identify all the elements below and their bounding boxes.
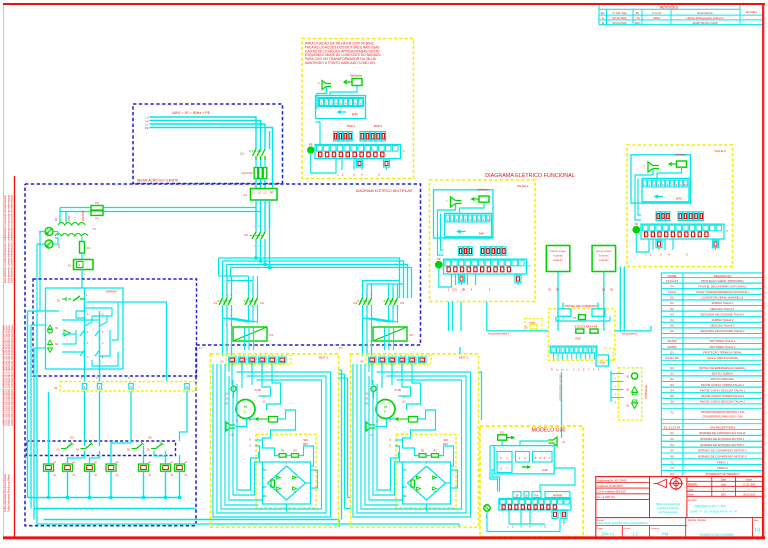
- control bus wire left: [487, 331, 549, 336]
- svg-text:S0: S0: [670, 366, 674, 370]
- antenna down button S2: [626, 400, 638, 408]
- svg-text:fax +q 45/8 7bd: fax +q 45/8 7bd: [597, 496, 615, 499]
- svg-text:MANTENDO O PONTO MARCADO COMO: MANTENDO O PONTO MARCADO COMO ON.: [305, 61, 376, 65]
- auxiliary contact box (blue dashed): [27, 441, 176, 456]
- antenna up button S1: [626, 387, 638, 395]
- svg-text:ARG: ARG: [634, 21, 640, 25]
- panel pin numbers: [551, 369, 600, 372]
- transformer T1: [55, 210, 96, 248]
- TALHA 1 internal strip wires: [439, 268, 518, 287]
- svg-text:08.03.2016: 08.03.2016: [743, 493, 756, 496]
- svg-text:L3: L3: [146, 115, 149, 119]
- svg-text:X1: X1: [54, 386, 58, 390]
- terminal strip X1 (supply entry): [244, 189, 277, 201]
- svg-text:Este desenho contem informacoe: Este desenho contem informacoes confiden…: [9, 194, 13, 283]
- svg-text:B: B: [526, 493, 528, 497]
- svg-text:440V = 3F = 60Hz + PE: 440V = 3F = 60Hz + PE: [172, 111, 211, 115]
- svg-text:BOTÃO DESCIDA: BOTÃO DESCIDA: [711, 376, 734, 381]
- svg-text:S1: S1: [670, 372, 674, 376]
- command panel box (yellow dashed): [549, 309, 615, 361]
- svg-text:FIM DE CURSO SUBIDA TALHA 1: FIM DE CURSO SUBIDA TALHA 1: [701, 383, 745, 387]
- svg-text:F6: F6: [95, 217, 99, 221]
- note box PE lamp: [308, 143, 314, 153]
- svg-text:F4: F4: [87, 246, 91, 250]
- svg-text:3~: 3~: [384, 410, 388, 414]
- svg-text:MOT 2: MOT 2: [459, 356, 468, 360]
- TALHA 2 pin numbers: [645, 253, 688, 257]
- sirene box (blue dashed): [33, 279, 197, 376]
- note box 220V conversion (yellow dashed): [302, 39, 414, 179]
- svg-text:Zeichng. Nummer: Zeichng. Nummer: [688, 519, 706, 522]
- svg-text:SIRENA: SIRENA: [105, 290, 116, 294]
- svg-text:S33: S33: [303, 438, 308, 442]
- svg-text:R: R: [551, 369, 553, 372]
- pendant box TALHA 2 (yellow dashed): [627, 145, 733, 267]
- svg-text:Gepr.: Gepr.: [688, 489, 694, 492]
- wires Q1 to X1: [256, 179, 265, 189]
- svg-text:ADAPTAÇÃO CA08: ADAPTAÇÃO CA08: [693, 20, 718, 25]
- svg-text:X1: X1: [670, 431, 674, 435]
- note box horn symbol: [318, 81, 331, 90]
- svg-text:via del painel 2: via del painel 2: [622, 334, 638, 336]
- brake Y2: [366, 422, 381, 437]
- panel connector blocks: [556, 309, 610, 321]
- svg-text:K3: K3: [70, 436, 74, 440]
- svg-text:K4: K4: [354, 301, 358, 305]
- G30 wires block to strip: [490, 440, 575, 491]
- svg-text:BORNES DE COMANDO DA TALHA: BORNES DE COMANDO DA TALHA: [700, 431, 746, 435]
- TALHA 2 lower cells: [656, 240, 719, 248]
- svg-text:SUBIDA 2: SUBIDA 2: [599, 259, 610, 262]
- svg-text:Talha Industrial Producao Bras: Talha Industrial Producao Brasil: [7, 474, 11, 512]
- TALHA 2 wires to strips: [635, 167, 682, 220]
- svg-text:Ed.: Ed.: [601, 11, 605, 15]
- svg-text:X2: X2: [670, 437, 674, 441]
- hoist motor box MOT 2 (yellow dashed): [351, 354, 479, 527]
- svg-text:K0: K0: [670, 296, 674, 300]
- svg-text:Hagenweg/Str. 800 23045: Hagenweg/Str. 800 23045: [597, 479, 627, 482]
- svg-text:S2: S2: [670, 377, 674, 381]
- wires X2 to motor: [232, 363, 262, 388]
- svg-text:DIAGRAMA ELÉTRICO MULTIFILAR: DIAGRAMA ELÉTRICO MULTIFILAR: [356, 188, 413, 193]
- G30 bottom wires: [487, 510, 564, 532]
- svg-text:K0: K0: [244, 233, 248, 237]
- panel fuse F3: [573, 315, 585, 320]
- border frame left red margin line: [14, 176, 16, 537]
- svg-text:BOTÃO SUBIDA: BOTÃO SUBIDA: [712, 371, 733, 376]
- svg-text:B40/T2: B40/T2: [374, 124, 383, 128]
- note box mid terminal cells group 1: [334, 132, 353, 142]
- sirene contact network wires: [62, 288, 167, 382]
- svg-text:BORNES DE ENTRADA MOTOR 2: BORNES DE ENTRADA MOTOR 2: [701, 443, 745, 447]
- svg-text:Format: Format: [597, 519, 604, 522]
- svg-text:.Tb: .Tb: [635, 16, 639, 20]
- svg-text:BORNES DE ENTRADA MOTOR 1: BORNES DE ENTRADA MOTOR 1: [701, 437, 745, 441]
- rectifier bridge MOT 1: [263, 462, 311, 508]
- TALHA 1 receiver enclosure: [434, 190, 494, 238]
- svg-text:Habilitador: Habilitador: [477, 189, 489, 192]
- svg-text:220V: 220V: [68, 215, 71, 221]
- contactor coil row K0-K6: [44, 461, 188, 477]
- svg-text:APRRR: APRRR: [553, 493, 563, 497]
- sirene exit pin numbers: [81, 377, 130, 380]
- svg-text:M1/M2: M1/M2: [667, 339, 677, 343]
- multifilar diagram boundary (blue dashed L-shape): [25, 184, 421, 526]
- svg-text:FUSÍV. TRANSFORMADOR (OPCIONAL: FUSÍV. TRANSFORMADOR (OPCIONAL): [696, 290, 748, 294]
- svg-text:DESNAME: EXTRUFVETLAN\0000012: DESNAME: EXTRUFVETLAN\00000126: [597, 521, 648, 525]
- note text paragraph: [305, 42, 381, 66]
- svg-text:B43: B43: [303, 442, 308, 446]
- rectifier box MOT 1 (yellow dashed): [250, 434, 317, 508]
- supply phase labels L3 L2 L1 PE: [145, 115, 149, 130]
- svg-text:K2: K2: [670, 307, 674, 311]
- title block file row: [596, 518, 761, 538]
- note box mid terminal cells group 2: [360, 132, 386, 142]
- note box receiver lamp E1: [344, 74, 362, 86]
- svg-text:NOTA: EM CASO DE DUVIDAS CONSU: NOTA: EM CASO DE DUVIDAS CONSULTE O MANU…: [10, 325, 14, 426]
- svg-text:X5: X5: [670, 455, 674, 459]
- svg-text:K1: K1: [214, 301, 218, 305]
- svg-text:1/1: 1/1: [754, 527, 761, 532]
- svg-text:REVISÕES: REVISÕES: [660, 4, 679, 9]
- svg-text:K5: K5: [148, 436, 152, 440]
- svg-text:PE: PE: [309, 143, 313, 147]
- TALHA 1 lower cells: [459, 275, 522, 283]
- svg-text:K6: K6: [410, 333, 414, 337]
- svg-text:Yr. Mo. Day: Yr. Mo. Day: [612, 11, 627, 15]
- antenna box (yellow dashed): [618, 368, 641, 420]
- svg-text:B40: B40: [676, 197, 682, 201]
- customer installation box (blue dashed): [133, 104, 283, 184]
- svg-text:V: V: [318, 81, 320, 85]
- svg-text:GND: GND: [575, 336, 581, 340]
- lamp H2 sirene: [48, 340, 59, 353]
- wire X1 tap down to sirene: [82, 270, 86, 289]
- svg-text:Varistor (RETIFICADOR): Varistor (RETIFICADOR): [707, 356, 738, 360]
- svg-text:Norm: Norm: [688, 493, 694, 496]
- svg-text:K6: K6: [670, 329, 674, 333]
- limit switch box SUBIDA 1: [546, 246, 570, 331]
- contactor K5: [384, 288, 405, 312]
- svg-text:Habilitador: Habilitador: [350, 74, 363, 78]
- legend table (component list): [661, 273, 762, 477]
- note box internal wires: [311, 122, 387, 173]
- panel relay blocks: [576, 329, 598, 333]
- svg-text:und Steuerungen: und Steuerungen: [658, 510, 678, 514]
- panel terminal comb: [550, 346, 597, 360]
- terminal strip X1 row (yellow dashed): [54, 382, 196, 392]
- svg-text:MODELO G30: MODELO G30: [532, 428, 566, 434]
- title block company text: [656, 502, 681, 514]
- svg-text:ARG: ARG: [721, 493, 726, 496]
- svg-text:X3: X3: [670, 443, 674, 447]
- pendant box TALHA 1 (yellow dashed): [430, 180, 536, 302]
- svg-text:G30 RECEPTORES: G30 RECEPTORES: [710, 425, 735, 429]
- crossover wires K1/K2: [223, 312, 258, 327]
- svg-text:K5: K5: [401, 301, 405, 305]
- G30 main strip: [499, 499, 571, 511]
- TALHA 1 strip B40: [445, 213, 492, 236]
- resistors R2 R3 MOT 2: [419, 450, 439, 458]
- svg-text:X: X: [403, 149, 405, 153]
- svg-text:SEGUNDA VELOCIDADE TALHA 2: SEGUNDA VELOCIDADE TALHA 2: [700, 329, 745, 333]
- wires coils to buses: [47, 391, 187, 499]
- G30 connector block: [494, 446, 554, 474]
- svg-text:Q1: Q1: [670, 350, 674, 354]
- svg-text:F1,F2,F3: F1,F2,F3: [666, 279, 679, 283]
- svg-text:Od.-st-mfpkfaue 080 0327: Od.-st-mfpkfaue 080 0327: [597, 491, 627, 494]
- svg-text:X: X: [529, 264, 531, 268]
- svg-text:M: M: [384, 404, 387, 409]
- contactor K1: [214, 288, 233, 317]
- svg-text:E1,32,33,34: E1,32,33,34: [664, 425, 681, 429]
- resistors R2 R3 MOT 1: [279, 450, 299, 458]
- bottom bus 3 long return: [44, 520, 340, 528]
- svg-text:F2: F2: [670, 472, 674, 476]
- antenna connector comb: [611, 371, 624, 404]
- wires lamps to transformer: [37, 232, 58, 312]
- note box main terminal strip X: [315, 145, 405, 159]
- G30 pin numbers: [507, 525, 546, 529]
- svg-text:Blatt: Blatt: [754, 519, 759, 522]
- svg-text:0V: 0V: [55, 218, 58, 221]
- svg-text:8 7: 8 7: [199, 347, 203, 350]
- svg-text:GND: GND: [599, 361, 605, 364]
- svg-text:PAINEL DE COMANDO: PAINEL DE COMANDO: [565, 304, 598, 308]
- svg-text:F21: F21: [500, 432, 505, 435]
- revision table: [599, 4, 763, 25]
- svg-text:via del painel talha 1: via del painel talha 1: [488, 333, 510, 336]
- svg-text:PE: PE: [145, 126, 149, 130]
- main contactor K0: [244, 226, 265, 248]
- feeder wires into contactor columns: [223, 276, 404, 288]
- wire mesh MOT 1: [213, 364, 331, 517]
- svg-text:Y2: Y2: [670, 466, 674, 470]
- svg-text:INSTALAÇÃO DO CLIENTE: INSTALAÇÃO DO CLIENTE: [137, 178, 179, 183]
- fuses F5 F6: [91, 201, 103, 221]
- svg-text:L1: L1: [146, 122, 149, 126]
- varistor resistor block MOT 2: [396, 417, 418, 423]
- left riser wires: [28, 311, 460, 527]
- svg-text:K3: K3: [270, 333, 274, 337]
- note box sub terminal labels: [347, 124, 383, 128]
- svg-text:X4: X4: [670, 449, 674, 453]
- svg-text:S0: S0: [57, 299, 61, 303]
- TALHA 2 PE lamp: [633, 222, 639, 233]
- svg-text:SUBIDA TALHA 1: SUBIDA TALHA 1: [712, 301, 734, 305]
- wires X3 to motor: [372, 363, 402, 388]
- svg-text:SUBIDA TALHA 2: SUBIDA TALHA 2: [712, 318, 734, 322]
- svg-text:Fa.-Nr.b: Fa.-Nr.b: [688, 499, 697, 502]
- svg-text:24V: 24V: [58, 243, 61, 248]
- TALHA 2 habilitador lamp: [669, 154, 687, 168]
- svg-text:R1,R2,R3: R1,R2,R3: [665, 356, 679, 360]
- contactor K4: [354, 288, 373, 317]
- svg-text:B40: B40: [479, 232, 485, 236]
- svg-text:S4: S4: [670, 388, 674, 392]
- svg-text:SEGUNDA VELOCIDADE TALHA 1: SEGUNDA VELOCIDADE TALHA 1: [700, 312, 745, 316]
- svg-text:M3/M4: M3/M4: [667, 345, 677, 349]
- svg-text:cabo de comando do painel: cabo de comando do painel: [559, 374, 561, 401]
- wire mesh MOT 2: [353, 364, 471, 517]
- svg-text:X2: X2: [220, 360, 224, 364]
- svg-text:BOTÃO DE EMERGÊNCIA (GERAL): BOTÃO DE EMERGÊNCIA (GERAL): [699, 365, 745, 370]
- motor M3/M4 (3~): [365, 386, 407, 422]
- svg-text:MOTORES TALHA 2: MOTORES TALHA 2: [710, 345, 736, 349]
- svg-text:regelbare Antriebe: regelbare Antriebe: [657, 506, 679, 510]
- svg-text:PROTEÇÃO GERAL (PRINCIPAL): PROTEÇÃO GERAL (PRINCIPAL): [701, 278, 744, 283]
- limit switch wire labels: [454, 289, 614, 292]
- sirene inner enclosure: [46, 288, 124, 369]
- svg-text:K4: K4: [670, 318, 674, 322]
- fuses F1 F2 F3: [242, 160, 267, 179]
- note box lower cells: [357, 160, 363, 167]
- svg-text:Talha Elétrica VKL7 1264: Talha Elétrica VKL7 1264: [694, 504, 726, 508]
- riser wires right of motor 2 box: [460, 337, 482, 420]
- svg-text:08.03.2016: 08.03.2016: [613, 21, 627, 25]
- G30 buzzer V1: [548, 437, 565, 446]
- svg-text:Talha Antriebstechnik: Talha Antriebstechnik: [656, 502, 681, 506]
- svg-text:G05001250CM0ML: G05001250CM0ML: [700, 532, 736, 537]
- note box pin numbers: [337, 173, 380, 177]
- svg-text:MOTORES TALHA 1: MOTORES TALHA 1: [710, 339, 736, 343]
- svg-text:M: M: [244, 404, 247, 409]
- TALHA 1 wires to strips: [438, 202, 485, 255]
- border frame top red line: [3, 3, 765, 5]
- title block drawing name: [688, 499, 737, 514]
- svg-text:SOB/DES: SOB/DES: [553, 256, 563, 258]
- title block frame: [596, 477, 763, 538]
- svg-text:B40/T1: B40/T1: [347, 124, 356, 128]
- svg-text:FIM DE CURSO DESCIDA TALHA 2: FIM DE CURSO DESCIDA TALHA 2: [700, 400, 746, 404]
- svg-text:Zeichnst.: Zeichnst.: [651, 527, 660, 530]
- svg-text:PE: PE: [635, 222, 639, 226]
- svg-text:380/440V: 380/440V: [82, 210, 85, 221]
- svg-text:K3: K3: [670, 312, 674, 316]
- svg-text:PE: PE: [437, 257, 441, 261]
- brake Y1: [226, 422, 241, 437]
- svg-text:FREIO 2: FREIO 2: [717, 466, 728, 470]
- TALHA 2 horn: [643, 162, 659, 172]
- svg-text:PE: PE: [270, 192, 274, 195]
- svg-text:FIM DE CURSO: FIM DE CURSO: [596, 251, 612, 253]
- svg-text:DESCIDA TALHA 2: DESCIDA TALHA 2: [711, 324, 735, 328]
- TALHA 1 pin numbers: [448, 288, 491, 292]
- TALHA 2 strip B40: [642, 178, 689, 201]
- svg-text:08.11.2000: 08.11.2000: [613, 16, 627, 20]
- svg-text:1:1: 1:1: [632, 532, 638, 537]
- border frame right red line: [762, 4, 764, 538]
- svg-text:F5,F6: F5,F6: [668, 290, 676, 294]
- terminal strip X3: [360, 356, 431, 365]
- lamp H1 sirene: [48, 325, 59, 333]
- wires K6 to motor terminals: [363, 341, 394, 356]
- distribution bus wires: [219, 200, 412, 298]
- svg-text:SOB/DES: SOB/DES: [599, 256, 609, 258]
- svg-text:DIN A1: DIN A1: [601, 532, 615, 537]
- title block date cells: [687, 477, 763, 497]
- svg-text:2400: 2400: [653, 16, 660, 20]
- antenna pushbutton S0: [626, 373, 638, 379]
- svg-text:F1,F2,F3: F1,F2,F3: [242, 171, 253, 175]
- G30 PE lamp: [484, 505, 490, 519]
- svg-text:TRANSFORMADOR 380/440V / 24V: TRANSFORMADOR 380/440V / 24V: [700, 410, 744, 414]
- control bus wire right: [615, 331, 651, 336]
- svg-text:Name: Name: [746, 479, 753, 482]
- svg-text:X1: X1: [244, 193, 248, 197]
- svg-text:Identifies: Identifies: [746, 10, 758, 14]
- svg-text:E1,E2,E3 KA,KA,KB: E1,E2,E3 KA,KA,KB: [575, 326, 598, 329]
- svg-text:FIM DE CURSO: FIM DE CURSO: [550, 251, 566, 253]
- title block address rows: [596, 479, 650, 499]
- svg-text:SUBIDA 1: SUBIDA 1: [553, 259, 564, 262]
- svg-text:11.06.1998: 11.06.1998: [743, 484, 755, 487]
- svg-text:K5: K5: [670, 324, 674, 328]
- rectifier box MOT 2 (yellow dashed): [390, 434, 457, 508]
- hoist motor box MOT 1 (yellow dashed): [211, 354, 339, 527]
- svg-text:Q1: Q1: [240, 152, 244, 156]
- svg-text:K2: K2: [261, 301, 265, 305]
- svg-text:L2: L2: [146, 119, 149, 123]
- svg-text:Y1: Y1: [670, 460, 674, 464]
- TALHA 1 horn: [446, 197, 462, 207]
- G30 antenna connector F21: [498, 432, 515, 441]
- G30 strip header labels: [513, 492, 570, 498]
- svg-text:S33: S33: [443, 438, 448, 442]
- indicator lamp H1: [39, 228, 53, 236]
- svg-text:Bearb.: Bearb.: [688, 483, 698, 487]
- TALHA 2 internal strip wires: [636, 233, 715, 252]
- svg-text:DESCIDA TALHA 1: DESCIDA TALHA 1: [711, 307, 735, 311]
- svg-text:A7,B0: A7,B0: [395, 389, 402, 392]
- motor M1/M2 (3~): [225, 386, 267, 422]
- svg-text:TALHA 1: TALHA 1: [517, 184, 529, 188]
- TALHA 1 habilitador lamp: [472, 189, 490, 203]
- svg-text:B43: B43: [443, 442, 448, 446]
- svg-text:K1: K1: [670, 301, 674, 305]
- svg-text:Escala: Escala: [624, 528, 631, 530]
- wire TALHA2 risers to bus: [620, 267, 651, 331]
- svg-text:BORNES DE CONVERSÃO MOTOR 2: BORNES DE CONVERSÃO MOTOR 2: [698, 454, 747, 459]
- svg-text:BORNES DE CONVERSÃO MOTOR 1: BORNES DE CONVERSÃO MOTOR 1: [698, 448, 747, 453]
- svg-text:S5: S5: [670, 394, 674, 398]
- svg-text:T1: T1: [93, 227, 97, 231]
- riser wires between motor boxes: [338, 370, 350, 520]
- svg-text:B: B: [602, 21, 604, 25]
- border frame bottom red line: [3, 536, 765, 539]
- panel riser stubs: [563, 303, 598, 309]
- svg-text:2634F - F - 08 - 04/0025-RA 04: 2634F - F - 08 - 04/0025-RA 04 - P - 04: [690, 510, 737, 514]
- svg-text:CONVERSÍVEL PARA 220V / 24V: CONVERSÍVEL PARA 220V / 24V: [702, 414, 743, 418]
- svg-text:MOT 1: MOT 1: [319, 356, 328, 360]
- bottom bus 1: [28, 497, 182, 499]
- svg-text:X: X: [726, 229, 728, 233]
- emergency switch S0: [57, 294, 88, 303]
- panel to receiver cable: [559, 372, 562, 438]
- contactor K2: [244, 288, 265, 312]
- title block logo: [654, 476, 684, 490]
- TALHA 1 mid cells: [459, 247, 507, 256]
- svg-text:T1: T1: [670, 410, 674, 414]
- svg-text:F5: F5: [95, 201, 99, 205]
- svg-text:X3: X3: [360, 360, 364, 364]
- svg-text:A7,B0: A7,B0: [255, 389, 262, 392]
- terminal strip X2: [220, 356, 291, 365]
- svg-text:B40: B40: [352, 113, 358, 117]
- svg-text:FIM DE CURSO DESCIDA TALHA 1: FIM DE CURSO DESCIDA TALHA 1: [700, 388, 746, 392]
- svg-text:Habilitador: Habilitador: [675, 154, 687, 157]
- svg-text:8 7: 8 7: [339, 347, 343, 350]
